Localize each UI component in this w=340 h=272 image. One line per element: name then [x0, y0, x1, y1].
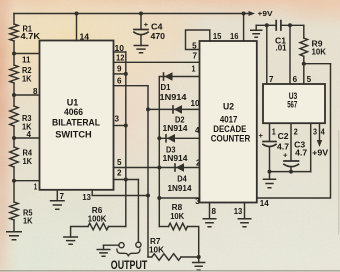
svg-text:14: 14 — [80, 32, 90, 41]
svg-text:+: + — [283, 150, 288, 159]
svg-text:4: 4 — [27, 130, 32, 139]
wire U1 pin 11 row — [14, 53, 40, 55]
op-amp U2 4017 decade counter box — [200, 41, 257, 203]
wire C2/C3 bottom rail — [270, 171, 311, 173]
svg-text:D3: D3 — [166, 145, 176, 154]
wire U1 pin 2 row — [114, 179, 139, 181]
wire U1 pin 4 row — [14, 137, 40, 139]
svg-text:C2: C2 — [278, 132, 290, 141]
svg-text:OUTPUT: OUTPUT — [111, 259, 148, 272]
node +9V arrow — [249, 11, 256, 16]
svg-text:BILATERAL: BILATERAL — [52, 117, 100, 128]
svg-text:+: + — [259, 131, 264, 140]
node R9/pin5/pin14 junction — [302, 62, 306, 66]
svg-text:4.7: 4.7 — [295, 148, 308, 157]
wire common bus — [125, 52, 127, 227]
svg-text:7: 7 — [193, 52, 198, 61]
node junction rail/U1 pin14 — [75, 12, 79, 16]
resistor R2 — [10, 65, 18, 83]
scan border bottom — [0, 270, 340, 272]
svg-text:5: 5 — [307, 75, 312, 84]
ground C1 — [255, 25, 257, 30]
svg-text:1: 1 — [272, 128, 277, 137]
svg-text:+9V: +9V — [258, 9, 273, 18]
ground R6 — [63, 237, 78, 244]
svg-text:3: 3 — [195, 197, 200, 206]
resistor R6 100K — [109, 226, 126, 228]
svg-text:1: 1 — [192, 65, 197, 74]
svg-text:R8: R8 — [172, 203, 183, 212]
wire U2 pin 3 row to R8 — [159, 197, 199, 199]
svg-text:11: 11 — [22, 56, 31, 65]
svg-text:1K: 1K — [23, 217, 33, 226]
ground C4 — [134, 46, 149, 53]
wire U3 pin 4 +9V arrow — [319, 123, 321, 140]
node C1/U3 pin6 junction — [288, 23, 292, 27]
wire switch to pin2 row — [137, 180, 139, 243]
svg-text:10K: 10K — [312, 47, 327, 56]
resistor R4 — [10, 147, 18, 167]
svg-text:7: 7 — [269, 75, 274, 84]
svg-text:567: 567 — [287, 100, 297, 110]
wire U2 pin 13 ground — [244, 203, 246, 219]
switch OUTPUT jack — [104, 244, 119, 246]
svg-text:13: 13 — [234, 207, 243, 216]
svg-text:COUNTER: COUNTER — [211, 132, 251, 143]
svg-text:8: 8 — [212, 207, 217, 216]
svg-text:1N914: 1N914 — [163, 154, 189, 163]
svg-text:10K: 10K — [149, 246, 164, 255]
svg-text:4.7K: 4.7K — [21, 32, 41, 41]
svg-text:16: 16 — [230, 32, 239, 41]
svg-text:2: 2 — [294, 128, 299, 137]
svg-text:+9V: +9V — [312, 148, 329, 157]
wire U3 pin 2 / capacitor C3 — [290, 123, 292, 160]
svg-text:4: 4 — [321, 128, 326, 137]
wire U2 pin5-pin15 jog — [186, 30, 210, 50]
wire U1 pin 1 row — [14, 180, 40, 182]
svg-text:1K: 1K — [22, 74, 32, 83]
ground C2/C3 — [269, 172, 271, 180]
svg-text:U2: U2 — [223, 100, 234, 111]
svg-text:14: 14 — [260, 199, 270, 208]
svg-text:4066: 4066 — [64, 106, 83, 117]
resistor R5 — [10, 202, 18, 220]
wire U2 pin 16 — [243, 14, 245, 42]
resistor R7 10K — [148, 256, 152, 258]
svg-text:12: 12 — [116, 53, 125, 62]
svg-text:1N914: 1N914 — [168, 184, 193, 193]
svg-text:SWITCH: SWITCH — [55, 128, 92, 139]
wire U1 pin 7 ground — [56, 190, 58, 201]
wire R9 junction to right vertical — [304, 63, 331, 65]
svg-text:D1: D1 — [161, 83, 172, 92]
wire U1 pin 3 row — [114, 125, 126, 127]
ground R7/R8 — [198, 257, 200, 263]
node C1/U3 pin7 junction — [265, 23, 269, 27]
svg-text:10K: 10K — [170, 212, 184, 221]
svg-text:6: 6 — [293, 75, 298, 84]
svg-text:5: 5 — [192, 41, 197, 50]
capacitor C1 .01 — [275, 21, 277, 30]
svg-text:15: 15 — [213, 32, 222, 41]
wire U1 pin 9 row — [114, 73, 126, 75]
svg-text:6: 6 — [117, 76, 122, 85]
svg-text:C4: C4 — [151, 22, 163, 31]
svg-text:13: 13 — [82, 193, 91, 202]
svg-text:D4: D4 — [177, 175, 187, 184]
wire left ladder vertical segments — [13, 14, 15, 25]
diode D2 1N914 row to U2 pin 10 — [148, 108, 200, 110]
switch lever brace — [117, 249, 140, 256]
svg-text:.01: .01 — [276, 43, 288, 52]
wire bus A (pin6/D2/pin13/R7) — [147, 86, 149, 257]
diode D4 1N914 on pin5 row — [174, 163, 176, 172]
wire U3 pin 6 — [289, 25, 291, 84]
diode D1 1N914 row to U2 pin 1 — [159, 76, 199, 78]
capacitor C4 470 — [140, 14, 142, 30]
svg-text:3: 3 — [115, 115, 120, 124]
wire U1 pin 14 — [76, 14, 78, 41]
wire bus B (D1/D3/pin5/R8) — [158, 77, 160, 227]
wire U1 pin 5 / D4 row to U2 pin 2 — [114, 167, 200, 169]
resistor R9 10K — [303, 25, 305, 38]
wire U3 pin 3 — [310, 123, 312, 171]
wire U3 pin 1 / capacitor C2 — [269, 123, 271, 141]
resistor R1 — [10, 24, 18, 41]
node junction rail/C4 — [139, 12, 143, 16]
svg-text:9: 9 — [117, 65, 122, 74]
svg-text:1N914: 1N914 — [163, 124, 189, 133]
svg-text:100K: 100K — [88, 214, 107, 223]
svg-text:1N914: 1N914 — [160, 93, 188, 102]
svg-text:+: + — [144, 20, 149, 29]
diode D3 1N914 row to U2 pin 4 — [159, 137, 199, 139]
svg-text:10: 10 — [115, 44, 125, 53]
ground R5 — [6, 232, 22, 240]
wire C1 row — [256, 24, 276, 26]
svg-text:8: 8 — [33, 87, 38, 96]
wire U1 pin 6 row — [114, 85, 149, 87]
wire U1 pin 8 row — [14, 94, 40, 96]
svg-text:7: 7 — [60, 192, 65, 201]
resistor R3 — [10, 106, 18, 126]
resistor R8 10K — [159, 226, 168, 228]
wire U2 pin 14 to right side — [257, 64, 331, 198]
svg-text:470: 470 — [151, 32, 166, 41]
node junction rail/U2 pin16 — [242, 12, 246, 16]
svg-text:1: 1 — [34, 183, 38, 192]
svg-text:5: 5 — [117, 158, 122, 167]
wire U2 pin 8 ground — [209, 203, 211, 219]
wire +9V top rail — [14, 13, 249, 15]
svg-text:D2: D2 — [175, 116, 185, 125]
wire U1 pin12 to U2 pin7 row — [114, 61, 200, 63]
wire U1 pin 13 row to bus A — [92, 190, 148, 196]
svg-text:2: 2 — [117, 169, 122, 178]
wire U3 pin 7 — [266, 25, 268, 84]
op-amp U3 567 box — [263, 84, 325, 123]
op-amp U1 4066 bilateral switch box — [40, 41, 114, 190]
svg-text:1K: 1K — [23, 157, 33, 166]
wire U1 pin 10 row — [114, 51, 126, 53]
svg-text:3: 3 — [313, 128, 318, 137]
